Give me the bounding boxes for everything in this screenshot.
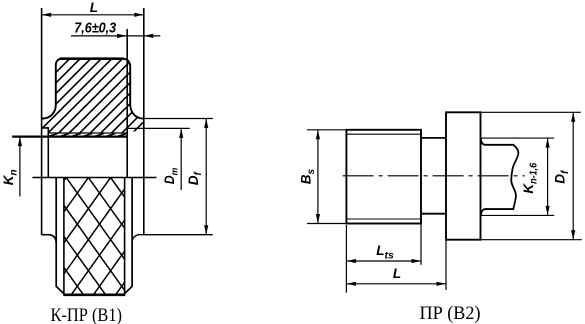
svg-text:Kn: Kn: [1, 169, 19, 185]
svg-text:Dm: Dm: [162, 167, 180, 184]
svg-text:Bs: Bs: [299, 168, 317, 184]
gauge head bottom edge: [485, 208, 514, 210]
dimension Lts: [346, 225, 421, 293]
handle outline left with bottom chamfer: [56, 178, 64, 294]
handle outline right with bottom chamfer: [124, 178, 132, 294]
dimension 7,6±0,3: [71, 34, 160, 38]
left step of ring bore: [42, 128, 49, 178]
thread minor diameter line top: [346, 133, 421, 135]
band bottom edge with Kn and Dm bottom extensions: [32, 177, 156, 179]
bore edge line / 7.6 extension: [126, 29, 128, 178]
svg-text:Df: Df: [186, 171, 204, 186]
head outline: [42, 59, 144, 119]
knurl right edge: [124, 178, 126, 295]
svg-text:Df: Df: [552, 169, 570, 184]
handle bottom edge: [63, 293, 125, 296]
flange disc: [446, 112, 481, 239]
thread minor diameter line bottom: [346, 218, 421, 220]
dimension Kn: [18, 137, 22, 197]
knurl left edge: [63, 178, 65, 295]
svg-text:К-ПР (В1): К-ПР (В1): [51, 305, 123, 324]
centerline: [343, 175, 525, 177]
neck top: [421, 137, 446, 139]
head top edge: [60, 57, 124, 60]
threaded cylinder outline: [346, 130, 421, 224]
dimension Bs: [307, 130, 346, 224]
dimension Df (right figure): [481, 112, 582, 239]
knurl cross-hatch: [0, 175, 201, 298]
dimension L (right figure): [346, 240, 446, 290]
dimension Dm: [127, 128, 190, 190]
svg-text:L: L: [393, 266, 401, 281]
svg-text:7,6±0,3: 7,6±0,3: [74, 19, 117, 36]
sleeve crimp bottom left: [42, 235, 57, 243]
right outer wall and L extension line: [143, 8, 145, 235]
svg-text:Lts: Lts: [376, 243, 394, 262]
plate bottom edge and Kn top extension: [12, 135, 127, 137]
neck bottom: [421, 213, 446, 215]
svg-text:Kn-1,6: Kn-1,6: [521, 162, 539, 193]
svg-text:ПР (В2): ПР (В2): [420, 303, 481, 324]
left outer wall and L extension line: [41, 8, 43, 235]
dimension Df (left figure): [144, 119, 213, 235]
svg-text:L: L: [90, 0, 98, 15]
dimension Kn-1,6: [481, 138, 554, 215]
sleeve crimp bottom right and Df bottom extension: [132, 235, 213, 243]
section hatching of gauge head: [0, 50, 247, 140]
gauge head outline with break: [481, 138, 519, 215]
dimension L (left figure): [42, 13, 144, 17]
plate top line: [48, 132, 127, 134]
plate shallow hatch dashes: [49, 133, 127, 136]
